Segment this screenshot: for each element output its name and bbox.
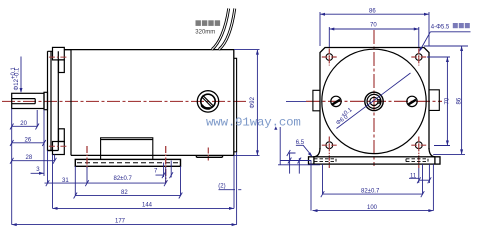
svg-text:100: 100 (367, 205, 378, 211)
hub circles (365, 92, 383, 110)
right side screw (407, 96, 417, 106)
left side screw (331, 96, 341, 106)
dim 70 top (329, 23, 419, 48)
bottom boss centerline (49, 145, 67, 147)
dim 144 (53, 155, 235, 210)
rear screw head (197, 91, 218, 112)
shaft collar (44, 92, 48, 109)
mounting hole bottom-left (322, 137, 337, 169)
bore callout text (334, 107, 356, 127)
rear cover (234, 58, 237, 152)
dim 177 (12, 152, 237, 226)
bore callout leader (337, 73, 411, 129)
svg-text:28: 28 (26, 155, 33, 161)
svg-text:www.91way.com: www.91way.com (206, 116, 301, 130)
right hole centerline red (165, 146, 167, 183)
mounting pad on base (101, 138, 153, 160)
dim 70 right (427, 57, 451, 146)
svg-text:6.5: 6.5 (296, 140, 305, 146)
svg-text:26: 26 (25, 138, 32, 144)
svg-text:86: 86 (369, 9, 376, 15)
foot plate front view (309, 157, 441, 164)
dim 26 (10, 110, 46, 176)
svg-text:31: 31 (62, 178, 69, 184)
mounting hole top-left (322, 49, 337, 66)
mounting hole top-right (411, 49, 426, 66)
left tab (313, 90, 320, 111)
svg-text:Φ92: Φ92 (250, 96, 256, 108)
projection stub line (286, 100, 306, 102)
wire label 引出线长 320mm (195, 20, 220, 35)
svg-text:82±0.7: 82±0.7 (361, 189, 380, 195)
bracket bottom screw boss (53, 129, 65, 155)
dim 11 (409, 164, 431, 183)
svg-text:320mm: 320mm (195, 29, 215, 35)
front body circle (322, 49, 426, 153)
base plate side view (75, 159, 180, 166)
lead wires (212, 9, 235, 50)
dim 82 (74, 166, 183, 198)
svg-text:Φ12: Φ12 (14, 78, 20, 90)
dim 31 and 82±0.7 chain (45, 167, 168, 186)
right tab (429, 90, 439, 111)
dim 7 (154, 161, 173, 179)
svg-text:-0.1: -0.1 (15, 67, 21, 78)
dim 6.5 foot (274, 126, 320, 173)
watermark www.91way.com (206, 116, 301, 130)
dim 86 right (424, 46, 468, 154)
dim 86 top (320, 9, 429, 47)
svg-text:(2): (2) (218, 183, 225, 189)
label 4-phi5.5 mounting holes (419, 23, 470, 52)
svg-text:20: 20 (20, 121, 27, 127)
dim 100 (311, 160, 433, 212)
shaft (12, 93, 44, 108)
svg-text:144: 144 (142, 203, 153, 209)
svg-text:70: 70 (370, 23, 377, 29)
foot slot left (314, 159, 336, 162)
mounting hole bottom-right (411, 137, 426, 169)
svg-text:82±0.7: 82±0.7 (114, 176, 133, 182)
side view centerline (2, 100, 246, 102)
foot slot right (406, 159, 428, 162)
svg-text:82: 82 (121, 190, 128, 196)
dim (2) (218, 183, 241, 189)
rear foot pad (196, 155, 222, 157)
dim 82±0.7 front (321, 164, 425, 197)
left hole centerline red (86, 146, 88, 168)
dim 3 (31, 151, 48, 184)
motor body (64, 50, 234, 156)
svg-text:70: 70 (445, 97, 451, 104)
dim phi12 shaft (11, 57, 23, 94)
svg-text:4-Φ5.5: 4-Φ5.5 (431, 25, 450, 31)
bracket top screw boss (53, 47, 65, 72)
front bracket (48, 50, 72, 156)
dim 20 (10, 109, 39, 225)
dim phi92 (234, 50, 260, 156)
svg-text:11: 11 (410, 174, 417, 180)
front flange (314, 48, 436, 165)
base plate hidden line (77, 162, 180, 164)
rear pad centerline (207, 148, 209, 161)
dim 28 (10, 155, 56, 164)
front view centerlines (306, 30, 442, 166)
svg-text:177: 177 (115, 219, 126, 225)
top boss centerline (49, 56, 67, 58)
svg-text:86: 86 (457, 97, 463, 104)
